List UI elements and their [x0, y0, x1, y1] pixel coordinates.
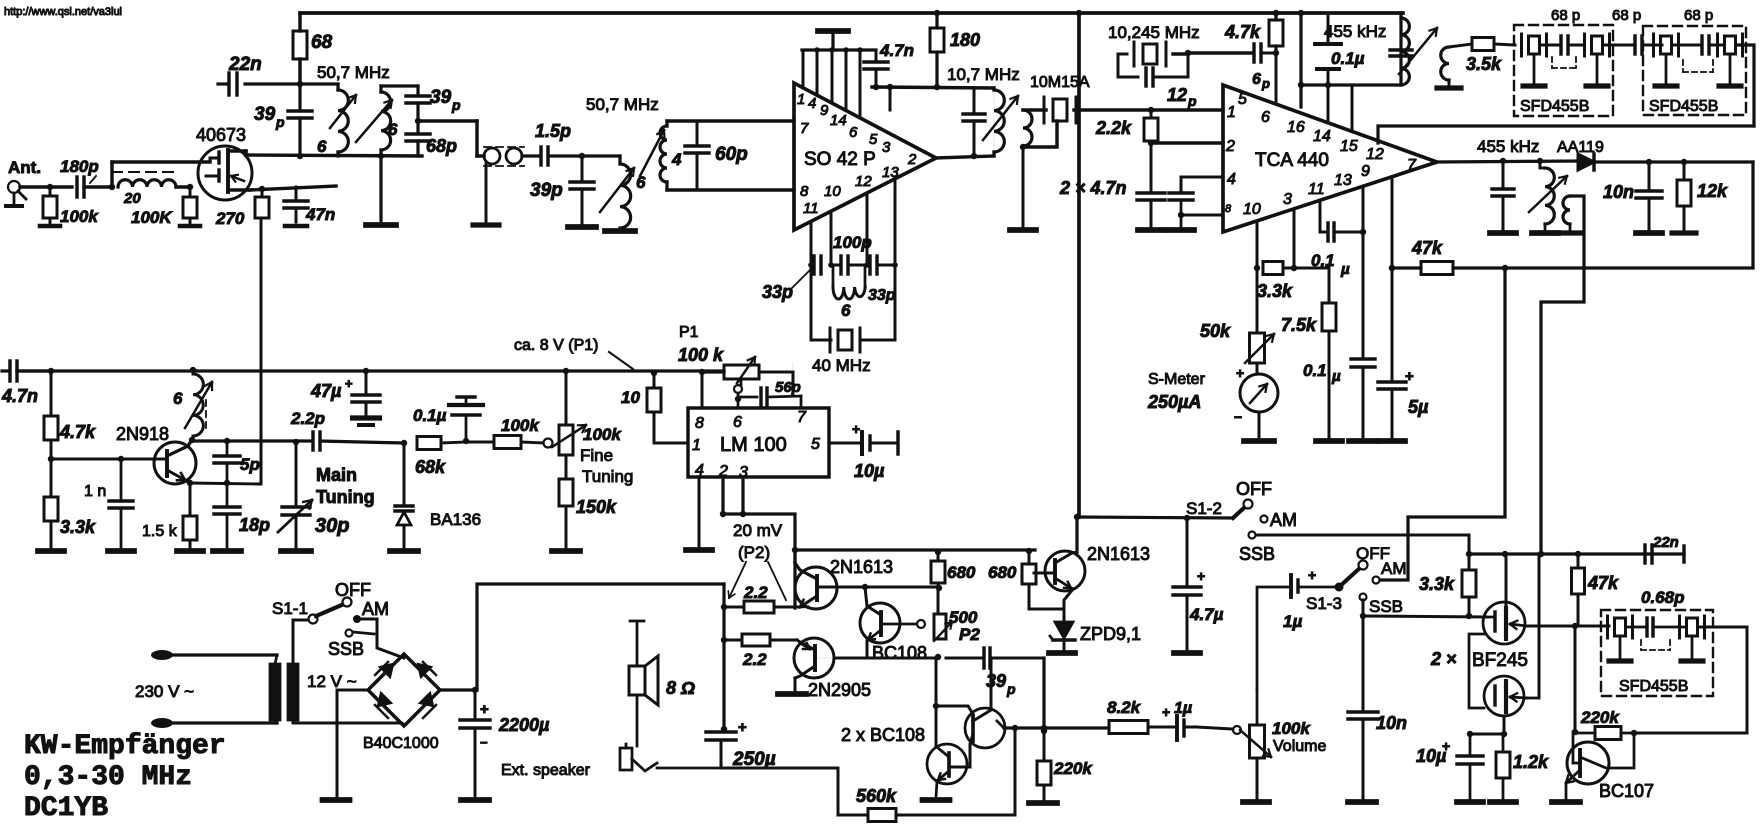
wire 2.2#2 to emitter	[770, 639, 797, 642]
svg-text:BF245: BF245	[1472, 650, 1528, 671]
junction 10.7 tank cap bottom	[971, 153, 977, 159]
ground (tank 1)	[379, 156, 382, 222]
ground (10u)	[1457, 799, 1483, 805]
svg-text:+: +	[1236, 365, 1244, 381]
svg-text:Ext. speaker: Ext. speaker	[501, 762, 591, 779]
wire 560k to output node	[724, 768, 838, 815]
junction BF245 drain	[1502, 551, 1508, 557]
svg-text:22n: 22n	[228, 54, 262, 75]
wire speaker to jack	[636, 695, 639, 746]
svg-text:39: 39	[254, 104, 276, 125]
inductor 10.7MHz IF secondary	[1023, 110, 1032, 146]
vertical supply bus (right of mixer)	[1077, 13, 1081, 517]
svg-text:0.1: 0.1	[1311, 251, 1335, 270]
resistor 100k (antenna)	[49, 187, 52, 196]
junction P2 bottom	[935, 654, 941, 660]
svg-text:0.1µ: 0.1µ	[1331, 49, 1365, 68]
svg-text:1: 1	[1227, 104, 1236, 121]
svg-text:Main: Main	[316, 465, 357, 485]
svg-text:0.1µ: 0.1µ	[413, 406, 447, 425]
svg-text:18p: 18p	[239, 515, 270, 535]
junction 8.2k row	[1041, 725, 1047, 731]
svg-text:30p: 30p	[315, 515, 349, 537]
svg-text:150k: 150k	[576, 497, 617, 517]
wire between filter blocks	[1604, 44, 1632, 47]
svg-text:9: 9	[1361, 163, 1370, 180]
svg-text:6: 6	[173, 389, 183, 408]
svg-text:180p: 180p	[60, 157, 99, 176]
diode bridge arm 1	[380, 664, 393, 677]
contact SSB (S1-3)	[1360, 594, 1367, 601]
svg-text:SSB: SSB	[1369, 597, 1403, 616]
svg-text:680: 680	[947, 563, 976, 582]
svg-text:20 mV: 20 mV	[733, 521, 783, 540]
svg-text:+: +	[345, 376, 353, 391]
contact AM (S1-3)	[1373, 577, 1380, 584]
svg-text:ca. 8 V (P1): ca. 8 V (P1)	[514, 337, 598, 354]
contact AM (S1-2)	[1261, 516, 1268, 523]
capacitor 6p (injection)	[1252, 44, 1255, 62]
resistor 180 (supply dropper)	[935, 13, 938, 28]
wire AGC right edge	[1505, 162, 1753, 268]
jack Ext. speaker	[620, 748, 632, 770]
wire pin14 stem	[1327, 85, 1330, 122]
junction source / 270	[259, 186, 265, 192]
svg-text:Volume: Volume	[1273, 738, 1326, 755]
wire mixer output (pin2)	[936, 156, 994, 158]
svg-text:12 V ~: 12 V ~	[307, 672, 357, 691]
svg-text:10,7 MHz: 10,7 MHz	[947, 65, 1020, 84]
diode ZPD9,1 (zener)	[1055, 622, 1073, 638]
ground (10.7 secondary)	[1022, 147, 1025, 228]
wire osc loop right	[894, 265, 897, 340]
svg-text:3.3k: 3.3k	[1257, 281, 1293, 301]
resistor 2.2 #1	[744, 601, 774, 613]
variable capacitor 30p (Main Tuning)	[295, 442, 298, 506]
svg-text:−: −	[480, 735, 488, 750]
svg-text:+: +	[480, 701, 489, 718]
ground (7.5k)	[1316, 438, 1342, 444]
wire antenna input	[20, 185, 72, 188]
wire FET source bracket	[1469, 634, 1484, 708]
svg-text:6: 6	[1252, 71, 1261, 88]
svg-text:100k: 100k	[1272, 719, 1311, 738]
wire volume top from S1-3	[1256, 690, 1259, 725]
svg-text:2N918: 2N918	[116, 424, 169, 444]
svg-text:P2: P2	[959, 625, 980, 644]
svg-text:8 Ω: 8 Ω	[666, 678, 695, 698]
svg-text:S-Meter: S-Meter	[1148, 371, 1206, 388]
svg-text:50,7 MHz: 50,7 MHz	[317, 63, 390, 82]
svg-text:BA136: BA136	[430, 510, 481, 529]
wire BC108 base to P2 wiper	[881, 623, 917, 626]
svg-text:2.2p: 2.2p	[290, 409, 325, 428]
rectifier B40C1000 (bridge)	[368, 654, 440, 726]
svg-text:3: 3	[1283, 191, 1292, 208]
junction 0.1u	[463, 438, 469, 444]
wire to BC108 pair base	[936, 706, 973, 714]
svg-text:1: 1	[692, 437, 701, 454]
455kHz IF transformer primary (variable)	[1399, 13, 1402, 85]
resistor 8.2k	[1109, 721, 1148, 734]
junction 47u	[363, 368, 369, 374]
capacitor 39p (second tank shunt)	[581, 156, 584, 181]
junction 4.7u	[1184, 515, 1190, 521]
junction osc cap taps	[808, 262, 814, 268]
diode bridge arm 2	[418, 664, 431, 677]
wire pin8 stem	[701, 372, 704, 408]
wire FET1 drain	[1505, 554, 1508, 610]
pin lines below triangle to osc caps	[810, 221, 813, 265]
svg-text:AM: AM	[362, 599, 389, 619]
capacitor 1.5p (coupling)	[539, 147, 542, 165]
ground (3.3k)	[38, 548, 64, 554]
svg-text:7: 7	[1407, 157, 1417, 174]
shielded cable symbol	[484, 148, 500, 164]
resistor 680 #2	[1026, 548, 1032, 554]
wire AC lower	[170, 721, 277, 724]
junction top bus 180	[934, 10, 940, 16]
ground (bridge)	[323, 797, 350, 803]
AC terminal upper	[151, 650, 173, 660]
junction 22n / 68	[297, 81, 303, 87]
capacitor 68p (divider lower)	[416, 121, 419, 133]
wire source rail	[250, 186, 336, 190]
svg-text:TCA 440: TCA 440	[1255, 150, 1329, 171]
inductor detector primary (variable)	[1537, 158, 1543, 164]
inductor 10.7MHz IF primary (variable)	[993, 88, 995, 152]
svg-text:DC1YB: DC1YB	[24, 793, 108, 824]
ground (220k)	[1029, 800, 1057, 806]
svg-text:33p: 33p	[762, 282, 793, 302]
junction rail to AF stage	[792, 547, 798, 553]
wire volume ground	[1256, 758, 1259, 799]
contact SSB (S1-1)	[346, 630, 353, 637]
resistor 2.2 #2	[742, 634, 770, 646]
svg-text:680: 680	[988, 563, 1017, 582]
svg-text:180: 180	[950, 30, 980, 50]
svg-text:50k: 50k	[1200, 321, 1231, 341]
wire 455 tank rail	[1301, 83, 1401, 86]
wire AM contact to AGC	[1380, 579, 1408, 582]
capacitor 39p (series divider)	[381, 84, 418, 87]
ground (det primary)	[1532, 230, 1558, 236]
svg-text:68 p: 68 p	[1612, 7, 1641, 24]
svg-text:12k: 12k	[1697, 181, 1728, 201]
wire BFO loop right	[1634, 627, 1747, 733]
svg-text:14: 14	[1313, 128, 1331, 145]
wire SSB contact down	[1362, 600, 1365, 616]
inductor 4 (50.7MHz bandpass coil)	[665, 121, 668, 126]
crystal 10,245 MHz	[1133, 42, 1136, 66]
svg-text:0,3-30 MHz: 0,3-30 MHz	[24, 762, 192, 793]
junction 39p shunt bottom	[297, 153, 303, 159]
junction BA136	[401, 440, 407, 446]
junction 4.7n to rail	[873, 84, 879, 90]
resistor 3.5k (filter source)	[1472, 38, 1494, 51]
junction divider tap	[415, 118, 421, 124]
svg-text:1µ: 1µ	[1283, 612, 1302, 631]
wire fine pot wiper	[544, 439, 553, 448]
svg-text:68k: 68k	[415, 457, 446, 477]
resistor 560k	[896, 814, 1015, 817]
capacitor 2200u (reservoir electrolytic)	[472, 687, 478, 693]
svg-text:68 p: 68 p	[1551, 7, 1580, 24]
resistor 68k (AFC feed)	[417, 437, 441, 450]
svg-text:4: 4	[1227, 171, 1236, 188]
wire pin3 stem	[1293, 209, 1296, 268]
wire FET2 gate to 455 rail	[1526, 697, 1539, 700]
svg-text:B40C1000: B40C1000	[363, 735, 439, 752]
junction main tuning	[293, 439, 299, 445]
wire 2.2#2 left	[724, 639, 742, 642]
wire pin13 stem	[1362, 188, 1365, 358]
svg-text:47k: 47k	[1411, 238, 1443, 258]
svg-text:SSB: SSB	[1239, 544, 1275, 564]
svg-text:12: 12	[855, 173, 872, 190]
capacitor 4.7u (electrolytic)	[1186, 518, 1189, 586]
AC terminal lower	[151, 718, 173, 728]
capacitor 4.7n (decoupling)	[875, 50, 878, 61]
ground (osc coil)	[605, 228, 635, 234]
svg-text:10: 10	[824, 183, 841, 200]
wire pin4 ground stem	[698, 477, 701, 548]
wire 2.2 left to output node	[724, 606, 744, 609]
svg-text:p: p	[451, 97, 461, 113]
svg-text:1 n: 1 n	[84, 483, 106, 500]
wire pin2 stem	[721, 477, 724, 514]
ground (150k)	[552, 548, 580, 554]
svg-text:16: 16	[1287, 119, 1305, 136]
wire switch to bridge	[357, 619, 404, 658]
wire filter chain 1	[1541, 44, 1558, 47]
svg-text:S1-1: S1-1	[272, 599, 308, 618]
svg-text:5µ: 5µ	[1408, 397, 1429, 417]
ground (4.7n b)	[1168, 227, 1194, 233]
wire AM audio down	[1379, 268, 1505, 580]
wire top supply bus	[300, 11, 1403, 15]
wire secondary bottom jog	[1023, 121, 1057, 147]
ground (pin13 cap)	[1349, 438, 1375, 444]
ground (volume)	[1243, 799, 1269, 805]
capacitor 39p (tank shunt)	[298, 84, 301, 110]
svg-text:6: 6	[733, 414, 742, 431]
ground (pin4)	[686, 547, 712, 553]
capacitor 10u (output electrolytic)	[860, 432, 864, 454]
svg-text:8: 8	[695, 415, 704, 432]
svg-text:OFF: OFF	[1236, 479, 1272, 499]
dashed bracket #2	[1682, 60, 1684, 72]
ground (zener)	[1049, 650, 1075, 656]
wire crystal to 6p	[1173, 52, 1188, 55]
wire pin11 stem	[1319, 200, 1322, 232]
ground (element 3)	[1665, 54, 1668, 84]
svg-text:9: 9	[820, 102, 829, 119]
svg-text:p: p	[1261, 76, 1270, 91]
svg-text:10n: 10n	[1603, 182, 1634, 202]
svg-text:−: −	[1234, 409, 1242, 425]
svg-text:AM: AM	[1381, 559, 1407, 578]
svg-text:+: +	[1442, 738, 1450, 754]
svg-text:47n: 47n	[305, 205, 335, 224]
svg-text:10M15A: 10M15A	[1030, 74, 1090, 91]
wire secondary top to crystal	[1023, 108, 1046, 111]
resistor 270 + oscillator injection line	[261, 189, 264, 197]
svg-text:7.5k: 7.5k	[1281, 315, 1317, 335]
junction collector tank	[189, 437, 195, 443]
resistor 50k (S-meter adjust, variable)	[1250, 333, 1265, 363]
resistor 1.5k (emitter)	[189, 483, 192, 516]
wire secondary top to S1-1	[293, 620, 311, 664]
wire 1u to volume top	[1257, 587, 1291, 690]
svg-text:5: 5	[869, 131, 878, 148]
svg-text:SFD455B: SFD455B	[1649, 98, 1718, 115]
junction det secondary	[1538, 551, 1544, 557]
junction gate line	[1466, 613, 1472, 619]
potentiometer 100k Volume	[1233, 726, 1241, 734]
filter element 2	[1583, 34, 1586, 56]
wire divider tap to cable	[418, 119, 477, 122]
svg-text:4.7n: 4.7n	[879, 41, 914, 60]
svg-text:13: 13	[882, 164, 899, 181]
wire emitter to 2.2	[774, 606, 799, 609]
svg-text:50,7 MHz: 50,7 MHz	[586, 95, 659, 114]
svg-text:4: 4	[808, 95, 816, 112]
svg-text:6: 6	[849, 124, 858, 141]
wire pin16 feed	[1299, 13, 1302, 107]
svg-text:P1: P1	[679, 324, 699, 341]
capacitor (detector tank)	[1502, 161, 1505, 188]
wire 47k to SFD3	[1578, 625, 1609, 628]
wire filter output to right edge	[1737, 45, 1754, 126]
svg-text:250µA: 250µA	[1147, 392, 1201, 412]
op-amp U1 SO 42 P (mixer triangle)	[794, 83, 936, 230]
junction 10n	[1646, 159, 1652, 165]
diode BA136 (varactor)	[403, 443, 406, 505]
svg-text:2 x BC108: 2 x BC108	[841, 725, 925, 745]
svg-text:http://www.qsl.net/va3iul: http://www.qsl.net/va3iul	[4, 6, 122, 18]
wire tank bottom to pin8	[667, 188, 794, 191]
filter element 5	[1606, 616, 1609, 638]
capacitor 10n (SSB filter)	[1362, 616, 1365, 711]
ceramic filter SFD455B #3 (dashed box)	[1601, 610, 1713, 696]
svg-text:2N2905: 2N2905	[808, 680, 871, 700]
svg-text:p: p	[1006, 681, 1016, 697]
resistor 7.5k	[1322, 303, 1336, 331]
ground (4.7n a)	[1138, 227, 1164, 233]
crystal 40 MHz	[829, 328, 832, 352]
crystal 10M15A	[1043, 97, 1046, 123]
svg-text:230 V ~: 230 V ~	[135, 682, 194, 701]
capacitor 1u (S1-3 electrolytic)	[1289, 575, 1293, 597]
wire pin3 stem	[741, 477, 744, 514]
svg-text:220k: 220k	[1580, 708, 1620, 727]
meter (S-meter movement)	[1240, 374, 1278, 412]
capacitor 2.2p (osc output coupling)	[311, 440, 313, 442]
svg-text:µ: µ	[1331, 368, 1341, 385]
wire to 7.5k	[1294, 268, 1329, 303]
svg-text:0.1: 0.1	[1303, 361, 1327, 380]
transformer secondary winding	[288, 664, 298, 720]
junction 0.1u rail	[1325, 82, 1331, 88]
svg-text:40673: 40673	[196, 125, 246, 145]
svg-text:7: 7	[797, 409, 807, 426]
wire pins header bar	[802, 48, 876, 51]
wire +12V rail	[477, 584, 724, 690]
svg-text:7: 7	[800, 120, 809, 137]
junction coil2 bottom	[378, 153, 384, 159]
capacitor 1u (AF coupling electrolytic)	[1175, 716, 1179, 740]
svg-text:6: 6	[1261, 109, 1270, 126]
label 180p callout	[90, 176, 96, 183]
loudspeaker 8 ohm	[629, 666, 645, 695]
svg-text:6: 6	[388, 120, 398, 139]
wire secondary top	[1449, 44, 1472, 47]
inductor 20 (input coil)	[118, 180, 176, 187]
svg-text:2: 2	[907, 151, 917, 168]
wire pin4	[1181, 177, 1223, 193]
ground (5u)	[1379, 438, 1405, 444]
ground (18p)	[213, 548, 241, 554]
capacitor 5p (feedback)	[226, 441, 229, 455]
transistor Q6 BC108 b (pair upper)	[965, 708, 1005, 748]
svg-text:p: p	[1187, 93, 1197, 109]
junction bus 0.1u	[1298, 10, 1304, 16]
svg-text:+: +	[738, 719, 747, 736]
svg-text:2.2k: 2.2k	[1095, 118, 1132, 138]
svg-text:4.7k: 4.7k	[1224, 22, 1261, 42]
svg-text:60p: 60p	[715, 144, 748, 165]
svg-text:250µ: 250µ	[732, 749, 776, 770]
wire base 2N1613	[817, 586, 939, 589]
capacitor 0.68p (BFO)	[1627, 626, 1645, 629]
wire FET1 mixer inject	[1527, 625, 1575, 628]
capacitor 68p #3	[1700, 36, 1703, 54]
wire to volume	[1196, 727, 1233, 729]
svg-text:68 p: 68 p	[1684, 7, 1713, 24]
svg-text:8: 8	[1225, 203, 1232, 215]
wire pin5 stem	[1275, 53, 1278, 104]
svg-text:40 MHz: 40 MHz	[812, 356, 871, 375]
wire regulator output rail	[723, 514, 795, 608]
junction bus 4.7k	[1273, 10, 1279, 16]
resistor 4.7k (osc bias upper)	[50, 371, 53, 416]
capacitor 0.1u (supply decoupling)	[1327, 13, 1330, 43]
svg-text:4.7µ: 4.7µ	[1189, 605, 1224, 624]
junction 100k input	[47, 184, 53, 190]
wire BFO feedback down	[1574, 626, 1577, 732]
455kHz IF transformer secondary	[1441, 47, 1449, 80]
inductor 6 (osc coil)	[832, 265, 835, 287]
capacitor 33p (osc right)	[868, 256, 871, 274]
junction 3.3k top	[1466, 551, 1472, 557]
svg-text:56p: 56p	[775, 379, 801, 396]
junction 1.5p output	[579, 153, 585, 159]
dashed bracket #3	[1640, 640, 1642, 650]
junction 560k	[1012, 725, 1018, 731]
svg-text:+: +	[1405, 368, 1414, 385]
svg-text:11: 11	[1308, 181, 1325, 198]
ground (BC108 pair)	[923, 797, 950, 803]
resistor 10 (reference feed)	[651, 370, 657, 376]
svg-text:(P2): (P2)	[738, 543, 770, 562]
svg-text:14: 14	[830, 112, 847, 129]
wire P1 wiper to pin6	[740, 380, 743, 385]
svg-text:+: +	[1197, 568, 1205, 584]
wire tank top to pin7	[667, 119, 794, 122]
wire source bias rail	[1470, 733, 1504, 736]
svg-text:1: 1	[797, 91, 805, 108]
